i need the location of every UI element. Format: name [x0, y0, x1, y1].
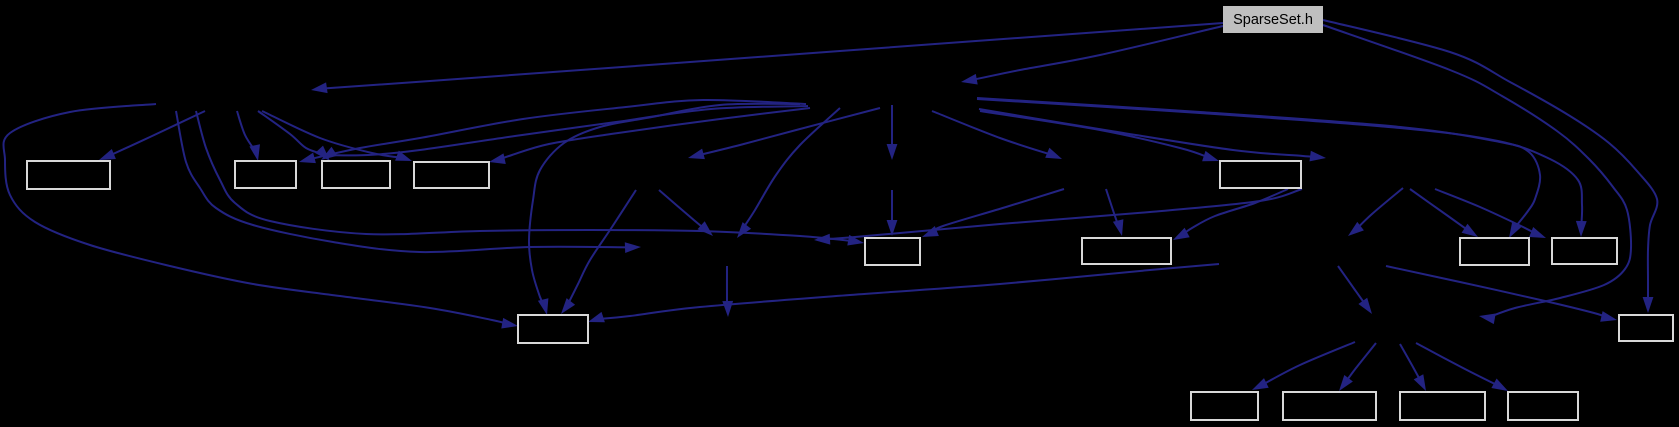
- edge T-K: [1323, 20, 1657, 313]
- edge B0-J: [3, 104, 518, 329]
- edge IB5-IB10: [722, 266, 733, 317]
- edge B1-IB3: [688, 108, 880, 159]
- edge T-IB9: [1323, 25, 1631, 324]
- edge B0-D: [262, 111, 412, 161]
- box J: [518, 315, 588, 343]
- box F: [865, 238, 920, 265]
- box I: [1552, 238, 1617, 264]
- box C: [322, 161, 390, 188]
- box E: [1220, 161, 1301, 188]
- box L3: [1400, 392, 1485, 420]
- box A: [27, 161, 110, 189]
- edge IB8-J: [588, 264, 1219, 322]
- edge IB2-F: [887, 190, 898, 236]
- box H: [1460, 238, 1529, 265]
- box L1: [1191, 392, 1258, 420]
- edge B0-F: [196, 111, 864, 246]
- edge IB7-H: [1410, 189, 1478, 237]
- edge B1-I: [977, 99, 1587, 237]
- edge IB9-L2: [1339, 343, 1376, 391]
- svg-text:SparseSet.h: SparseSet.h: [1233, 12, 1313, 28]
- edge B1-IB6: [932, 111, 1062, 159]
- edge E-G: [1173, 189, 1288, 240]
- edge E-IB5: [814, 189, 1302, 245]
- box B: [235, 161, 296, 188]
- edge B1-J: [529, 104, 800, 315]
- edge IB9-L3: [1400, 344, 1426, 391]
- box L2: [1283, 392, 1376, 420]
- edge IB3-IB5: [659, 190, 713, 236]
- edge IB8-K: [1386, 266, 1617, 322]
- edge B1-D: [489, 108, 810, 164]
- box K: [1619, 315, 1673, 341]
- edge IB3-J: [561, 190, 636, 314]
- edge B0-B: [237, 111, 260, 161]
- node SparseSet.h: [1223, 6, 1323, 33]
- edge T-B0: [311, 23, 1223, 93]
- edge T-B1: [961, 26, 1223, 85]
- box L4: [1508, 392, 1578, 420]
- edge B1-IB7: [979, 109, 1326, 161]
- edge IB6-F: [922, 189, 1064, 237]
- edge B1-IB5b: [737, 108, 840, 238]
- edge B0-A: [99, 111, 205, 160]
- box D: [414, 162, 489, 188]
- box G: [1082, 238, 1171, 264]
- edge B1-H: [977, 98, 1540, 238]
- edge IB9-L1: [1252, 342, 1355, 390]
- edge B1-C: [321, 106, 808, 160]
- edge B0-C: [258, 111, 330, 161]
- edge IB8-IB9: [1338, 266, 1372, 314]
- edge B1-E: [980, 111, 1219, 161]
- edge IB7-IB8: [1348, 188, 1403, 236]
- edge IB7-I: [1435, 189, 1546, 238]
- edge B1-IB2: [887, 105, 898, 160]
- edge IB6-G: [1106, 189, 1123, 236]
- edge B0-IB5: [176, 111, 641, 253]
- edge IB9-L4: [1416, 343, 1508, 391]
- edge B1-B: [299, 100, 806, 163]
